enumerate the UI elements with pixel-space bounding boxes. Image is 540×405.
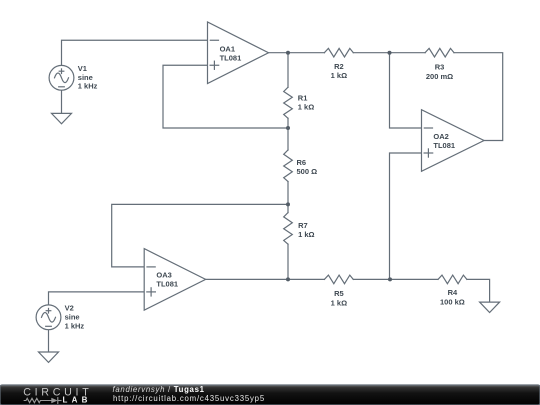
svg-text:OA2: OA2 — [433, 132, 448, 141]
svg-text:TL081: TL081 — [433, 141, 455, 150]
svg-text:fandiervnsyh / Tugas1: fandiervnsyh / Tugas1 — [113, 385, 205, 394]
svg-text:TL081: TL081 — [220, 53, 242, 62]
svg-text:100 kΩ: 100 kΩ — [440, 297, 465, 306]
svg-text:R5: R5 — [334, 289, 344, 298]
svg-text:OA1: OA1 — [220, 44, 235, 53]
svg-text:R4: R4 — [448, 288, 458, 297]
svg-text:1 kHz: 1 kHz — [65, 322, 85, 331]
svg-text:R7: R7 — [298, 221, 308, 230]
svg-text:R3: R3 — [435, 63, 445, 72]
svg-text:TL081: TL081 — [156, 280, 178, 289]
svg-text:R1: R1 — [298, 94, 308, 103]
svg-text:sine: sine — [78, 73, 93, 82]
svg-text:R2: R2 — [334, 62, 344, 71]
svg-text:OA3: OA3 — [156, 271, 171, 280]
svg-text:LAB: LAB — [63, 396, 92, 405]
svg-text:1 kΩ: 1 kΩ — [331, 71, 347, 80]
svg-text:V2: V2 — [65, 304, 74, 313]
svg-text:1 kHz: 1 kHz — [78, 82, 98, 91]
svg-text:500 Ω: 500 Ω — [297, 167, 318, 176]
svg-text:sine: sine — [65, 313, 80, 322]
svg-text:1 kΩ: 1 kΩ — [298, 103, 314, 112]
svg-text:1 kΩ: 1 kΩ — [331, 299, 347, 308]
svg-text:V1: V1 — [78, 64, 87, 73]
svg-text:R6: R6 — [297, 158, 307, 167]
svg-text:200 mΩ: 200 mΩ — [426, 72, 453, 81]
svg-text:1 kΩ: 1 kΩ — [298, 230, 314, 239]
svg-text:http://circuitlab.com/c435uvc3: http://circuitlab.com/c435uvc335yp5 — [113, 394, 265, 403]
